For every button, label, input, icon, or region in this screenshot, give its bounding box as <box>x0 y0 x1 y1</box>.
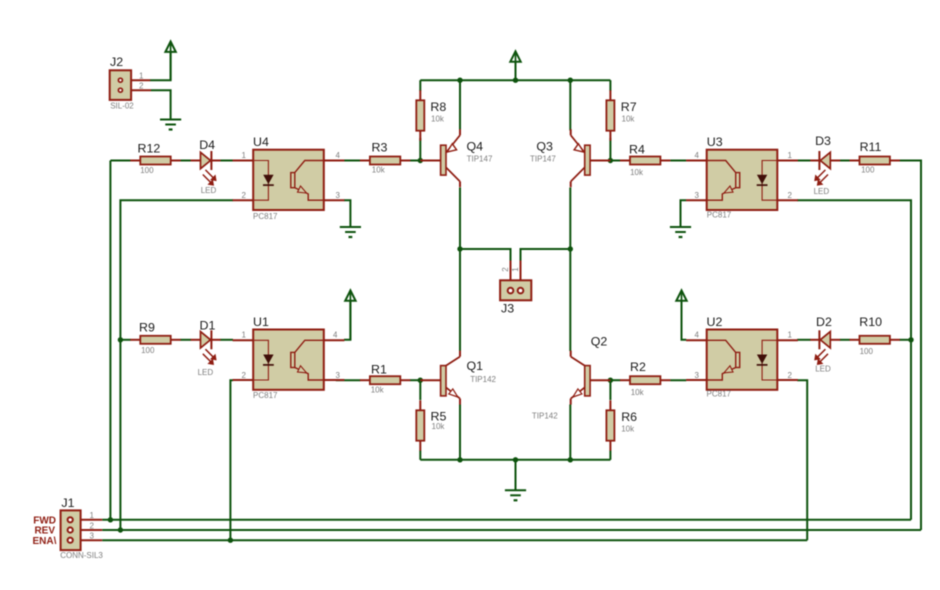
svg-text:4: 4 <box>695 151 700 160</box>
wire R9 to D1 <box>180 339 191 341</box>
svg-text:1: 1 <box>139 72 144 81</box>
wire R8 top <box>419 80 421 91</box>
svg-text:R3: R3 <box>372 141 388 155</box>
wire R4 to U3 pin4 <box>670 160 686 162</box>
svg-text:Q1: Q1 <box>467 359 484 373</box>
svg-text:LED: LED <box>815 365 831 374</box>
transistor Q2 <box>571 351 611 405</box>
wire R7 bottom to node <box>609 138 611 161</box>
svg-text:R6: R6 <box>621 410 637 424</box>
svg-text:1: 1 <box>242 331 247 340</box>
resistor R2 <box>620 360 670 397</box>
wire R7 top <box>609 80 611 91</box>
svg-text:10k: 10k <box>631 388 645 397</box>
svg-text:LED: LED <box>814 187 830 196</box>
svg-text:10k: 10k <box>371 386 385 395</box>
resistor R3 <box>360 141 410 175</box>
junction Q1 base node <box>418 378 423 383</box>
svg-text:3: 3 <box>90 532 95 541</box>
svg-text:2: 2 <box>501 267 510 272</box>
resistor R5 <box>416 400 446 450</box>
svg-text:SIL-02: SIL-02 <box>110 101 134 110</box>
power VCC top <box>510 51 520 80</box>
wire Q4 emitter to bus <box>459 80 461 130</box>
svg-text:1: 1 <box>788 331 793 340</box>
wire top VCC bus <box>420 79 610 81</box>
opto-coupler U4 <box>233 150 345 210</box>
svg-text:PC817: PC817 <box>707 210 732 219</box>
wire U1 pin3 to R1 <box>336 379 361 381</box>
connector J2 <box>110 55 151 111</box>
wire U1 pin4 to power <box>344 301 350 340</box>
wire FWD corner to R12 <box>110 160 130 162</box>
svg-text:10k: 10k <box>622 115 636 124</box>
svg-text:2: 2 <box>139 82 144 91</box>
svg-text:U3: U3 <box>707 135 723 149</box>
junction J3 bus left <box>457 246 462 251</box>
svg-text:2: 2 <box>788 191 793 200</box>
LED D4 <box>191 151 221 186</box>
resistor R6 <box>606 400 637 450</box>
junction Q2 base node <box>608 378 613 383</box>
svg-text:PC817: PC817 <box>707 390 732 399</box>
svg-text:10k: 10k <box>432 422 446 431</box>
wire Q1 collector up <box>459 249 461 351</box>
wire D4 to U4 pin1 <box>220 160 233 162</box>
LED D1 <box>191 330 221 365</box>
svg-text:10k: 10k <box>372 165 386 174</box>
transistor Q4 <box>420 129 460 187</box>
wire Q2 collector up <box>569 249 571 351</box>
LED D2 <box>810 330 840 365</box>
wire ENA row <box>102 539 807 541</box>
transistor Q1 <box>420 351 460 405</box>
junction bottom bus left <box>457 457 462 462</box>
svg-text:J2: J2 <box>110 55 123 69</box>
wire bottom ground bus <box>420 459 610 461</box>
svg-text:PC817: PC817 <box>253 212 278 221</box>
svg-text:3: 3 <box>695 371 700 380</box>
junction J3 bus right <box>568 246 573 251</box>
ground J2 <box>160 120 181 130</box>
wire REV to R9 <box>120 339 130 341</box>
wire R3 to node <box>410 160 420 162</box>
svg-text:PC817: PC817 <box>253 391 278 400</box>
junction Q4 base node <box>418 158 423 163</box>
svg-text:1: 1 <box>90 511 95 520</box>
svg-text:R12: R12 <box>138 142 161 156</box>
connector J3 <box>500 261 531 316</box>
wire U2 pin2 to ENA net right <box>797 380 807 540</box>
wire R6 bottom to bus <box>609 451 611 460</box>
resistor R9 <box>130 320 180 355</box>
junction REV at R9 <box>118 337 123 342</box>
ground center <box>505 490 526 500</box>
junction Q3 base node <box>608 158 613 163</box>
junction FWD at J1 <box>108 517 113 522</box>
wire REV row <box>102 529 921 531</box>
svg-text:TIP147: TIP147 <box>467 154 493 163</box>
wire R8 bottom to node <box>419 138 421 161</box>
wire node to R4 <box>610 160 620 162</box>
junction FWD at R10 <box>908 337 913 342</box>
svg-text:10k: 10k <box>630 168 644 177</box>
svg-text:4: 4 <box>336 151 341 160</box>
svg-text:TIP147: TIP147 <box>530 154 556 163</box>
wire U2 pin4 to power <box>682 301 687 340</box>
wire node to R5 top <box>419 380 421 400</box>
junction top bus center <box>513 78 518 83</box>
wire D2 to R10 <box>840 339 850 341</box>
svg-text:2: 2 <box>788 371 793 380</box>
opto-coupler U2 <box>686 330 798 390</box>
opto-coupler U1 <box>233 330 345 390</box>
resistor R4 <box>620 142 670 177</box>
svg-text:R1: R1 <box>371 362 387 376</box>
svg-text:R2: R2 <box>630 360 646 374</box>
wire U3 pin2 to FWD net right <box>797 200 911 520</box>
wire R10 to FWD vertical <box>900 339 912 341</box>
opto-coupler U3 <box>686 150 798 210</box>
wire FWD vertical <box>109 161 111 520</box>
wire J2 pin1 to power <box>150 52 171 80</box>
wire U1 pin2 to ENA net <box>230 380 233 540</box>
svg-text:1: 1 <box>242 151 247 160</box>
svg-text:R9: R9 <box>139 320 155 334</box>
wire U4 pin2 to REV net <box>120 200 233 530</box>
svg-text:2: 2 <box>90 521 95 530</box>
svg-text:100: 100 <box>860 347 874 356</box>
transistor Q3 <box>571 129 611 187</box>
svg-text:3: 3 <box>336 191 341 200</box>
wire J3 pin2 branch <box>460 249 511 261</box>
resistor R1 <box>360 362 410 394</box>
svg-text:TIP142: TIP142 <box>532 412 558 421</box>
LED D3 <box>810 151 840 186</box>
wire U4 pin4 to R3 <box>344 160 360 162</box>
wire D1 to U1 pin1 <box>220 339 233 341</box>
junction bottom bus center <box>513 457 518 462</box>
svg-text:1: 1 <box>511 267 520 272</box>
svg-text:ENA\: ENA\ <box>32 536 56 547</box>
svg-text:LED: LED <box>198 368 214 377</box>
svg-text:100: 100 <box>140 166 154 175</box>
wire Q2 emitter down <box>569 405 571 460</box>
svg-text:D2: D2 <box>816 315 832 329</box>
svg-text:D3: D3 <box>815 134 831 148</box>
wire Q3 collector down <box>569 188 571 250</box>
wire U3 pin3 to ground <box>681 200 687 227</box>
svg-text:U2: U2 <box>707 315 723 329</box>
svg-text:Q2: Q2 <box>591 335 608 349</box>
svg-text:Q4: Q4 <box>467 140 484 154</box>
junction top bus left <box>457 78 462 83</box>
junction bottom bus right <box>568 457 573 462</box>
ground U4 <box>340 227 361 237</box>
svg-text:4: 4 <box>695 331 700 340</box>
svg-text:10k: 10k <box>621 424 635 433</box>
power U2 <box>676 290 686 339</box>
svg-text:R8: R8 <box>430 100 446 114</box>
resistor R7 <box>606 90 636 140</box>
wire Q3 emitter to bus <box>569 80 571 130</box>
svg-text:R10: R10 <box>859 315 882 329</box>
wire R11 to REV net right <box>900 161 922 531</box>
wire D3 to R11 <box>840 160 850 162</box>
wire node to R2 <box>610 379 620 381</box>
wire R5 bottom to bus <box>419 451 421 460</box>
svg-text:J3: J3 <box>501 301 514 315</box>
resistor R12 <box>130 142 180 175</box>
svg-text:2: 2 <box>242 191 247 200</box>
svg-text:3: 3 <box>695 191 700 200</box>
wire U3 pin1 to D3 <box>797 160 811 162</box>
wire J3 pin1 branch <box>521 249 571 261</box>
resistor R11 <box>850 140 900 174</box>
svg-text:D1: D1 <box>200 319 216 333</box>
wire FWD row <box>102 519 911 521</box>
svg-text:R7: R7 <box>621 100 637 114</box>
wire R2 to U2 pin3 <box>670 379 686 381</box>
svg-text:3: 3 <box>336 371 341 380</box>
wire R12 to D4 <box>180 160 191 162</box>
connector J1 <box>32 496 103 560</box>
wire R1 to node <box>410 379 420 381</box>
svg-text:1: 1 <box>788 151 793 160</box>
svg-text:100: 100 <box>141 346 155 355</box>
svg-text:R4: R4 <box>629 142 645 156</box>
svg-text:2: 2 <box>242 371 247 380</box>
svg-text:U1: U1 <box>253 315 269 329</box>
wire U2 pin1 to D2 <box>797 339 811 341</box>
svg-text:CONN-SIL3: CONN-SIL3 <box>60 551 103 560</box>
resistor R8 <box>416 90 446 140</box>
wire ground stem center <box>515 460 517 491</box>
svg-text:J1: J1 <box>61 496 74 510</box>
svg-text:U4: U4 <box>253 135 269 149</box>
svg-text:LED: LED <box>201 186 217 195</box>
svg-text:4: 4 <box>333 331 338 340</box>
svg-text:D4: D4 <box>199 138 215 152</box>
ground U3 <box>670 227 691 237</box>
wire node to R6 top <box>609 380 611 400</box>
junction top bus right <box>568 78 573 83</box>
svg-text:TIP142: TIP142 <box>470 375 496 384</box>
svg-text:10k: 10k <box>431 115 445 124</box>
svg-text:Q3: Q3 <box>536 140 553 154</box>
power J2 <box>165 42 175 81</box>
wire J2 pin2 to ground <box>151 90 171 119</box>
resistor R10 <box>850 315 900 356</box>
power U1 <box>345 290 355 339</box>
svg-text:R11: R11 <box>860 140 882 154</box>
wire U4 pin3 to ground <box>344 200 350 227</box>
wire Q1 emitter down <box>459 405 461 460</box>
junction ENA at J1 <box>228 538 233 543</box>
svg-text:100: 100 <box>861 165 875 174</box>
junction REV at J1 <box>118 527 123 532</box>
wire Q4 collector down <box>459 188 461 250</box>
